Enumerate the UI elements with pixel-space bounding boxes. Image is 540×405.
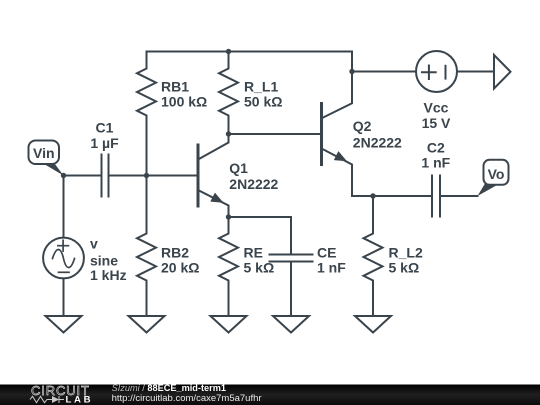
svg-text:5 kΩ: 5 kΩ xyxy=(244,260,275,276)
wire input row xyxy=(64,175,102,177)
capacitor C1 xyxy=(102,155,109,197)
svg-text:15 V: 15 V xyxy=(422,115,451,131)
wire Vcc to ground xyxy=(457,71,494,73)
svg-text:Vo: Vo xyxy=(488,166,505,182)
capacitor CE plates xyxy=(270,255,313,262)
resistor RB1 xyxy=(137,52,156,176)
svg-text:20 kΩ: 20 kΩ xyxy=(161,260,199,276)
svg-text:2N2222: 2N2222 xyxy=(229,176,278,192)
svg-text:SIzumi / 88ECE_mid-term1: SIzumi / 88ECE_mid-term1 xyxy=(112,383,226,393)
svg-text:Vin: Vin xyxy=(33,145,55,161)
svg-text:Vcc: Vcc xyxy=(424,99,449,115)
node label Vin box xyxy=(29,141,60,165)
label Vin tail xyxy=(42,163,64,176)
svg-text:http://circuitlab.com/caxe7m5a: http://circuitlab.com/caxe7m5a7ufhr xyxy=(112,393,262,404)
wire Q1 collector to Q2 base xyxy=(229,133,322,135)
svg-text:1 nF: 1 nF xyxy=(317,260,346,276)
node dot Vin xyxy=(61,173,66,178)
resistor RB2 xyxy=(137,176,156,317)
voltage source minus sign xyxy=(59,271,70,273)
transistor Q2 emitter xyxy=(322,149,353,197)
svg-text:1 kHz: 1 kHz xyxy=(90,267,127,283)
svg-text:100 kΩ: 100 kΩ xyxy=(161,93,207,109)
transistor Q1 base bar xyxy=(197,145,200,206)
resistor R_L2 xyxy=(364,196,383,316)
wire Q1 emitter row xyxy=(229,216,292,218)
node dot Q1 collector junction xyxy=(226,131,231,136)
voltage source V1 circle xyxy=(43,238,84,279)
svg-text:sine: sine xyxy=(90,252,118,268)
node dot top rail R_L1 xyxy=(226,49,231,54)
ground right of Vcc xyxy=(494,55,511,89)
capacitor C2 plates xyxy=(432,176,440,217)
Vcc plus sign xyxy=(422,66,436,80)
transistor Q2 emitter arrow xyxy=(334,151,347,161)
svg-text:Q1: Q1 xyxy=(229,160,248,176)
Vcc minus bar xyxy=(445,66,447,79)
voltage source plus sign xyxy=(58,240,69,251)
voltage source sine wave xyxy=(53,250,75,268)
transistor Q1 emitter arrow xyxy=(210,193,223,203)
label Vo tail xyxy=(478,184,498,197)
svg-text:R_L1: R_L1 xyxy=(244,78,278,94)
transistor Q2 base bar xyxy=(320,104,323,165)
svg-text:LAB: LAB xyxy=(66,395,91,405)
svg-text:1 µF: 1 µF xyxy=(90,135,119,151)
svg-text:C1: C1 xyxy=(96,119,114,135)
wire Vcc branch xyxy=(352,71,416,73)
transistor Q1 emitter xyxy=(198,190,229,217)
ground below RB2 xyxy=(129,316,165,333)
ground below CE xyxy=(273,316,309,333)
wire top rail xyxy=(147,51,353,53)
footer logo diode triangle xyxy=(52,396,59,403)
resistor RE xyxy=(219,217,238,316)
svg-text:RB1: RB1 xyxy=(161,78,189,94)
wire C2 to Vo xyxy=(440,195,478,197)
wire Vin node down to source xyxy=(63,176,65,238)
ground below RE xyxy=(211,316,247,333)
wire C1 to Q1 base xyxy=(109,175,199,177)
svg-text:RB2: RB2 xyxy=(161,245,189,261)
capacitor CE bottom wire xyxy=(290,262,292,317)
svg-text:1 nF: 1 nF xyxy=(421,155,450,171)
svg-text:C2: C2 xyxy=(427,140,445,156)
node label Vo box xyxy=(484,160,509,185)
svg-text:CE: CE xyxy=(317,245,336,261)
wire source to ground xyxy=(63,278,65,316)
wire Q2 emitter row xyxy=(352,195,432,197)
node dot Q1 emitter junction xyxy=(226,214,231,219)
footer bar xyxy=(0,385,540,405)
svg-text:R_L2: R_L2 xyxy=(389,245,423,261)
node dot RB1-RB2-C1 junction xyxy=(144,173,149,178)
resistor R_L1 xyxy=(219,52,238,135)
node dot Q2 emitter junction xyxy=(370,193,375,198)
transistor Q1 collector xyxy=(198,134,229,160)
svg-text:RE: RE xyxy=(244,245,263,261)
svg-text:2N2222: 2N2222 xyxy=(353,135,402,151)
ground below source xyxy=(46,316,82,333)
transistor Q2 collector xyxy=(322,52,353,119)
node dot Vcc branch xyxy=(349,69,354,74)
svg-text:50 kΩ: 50 kΩ xyxy=(244,93,282,109)
svg-text:Q2: Q2 xyxy=(353,118,372,134)
capacitor CE top wire xyxy=(290,217,292,255)
footer logo resistor-diode glyph xyxy=(30,396,64,403)
ground below R_L2 xyxy=(355,316,391,333)
svg-text:5 kΩ: 5 kΩ xyxy=(389,260,420,276)
voltage source Vcc circle xyxy=(416,51,457,92)
svg-text:v: v xyxy=(90,236,98,252)
